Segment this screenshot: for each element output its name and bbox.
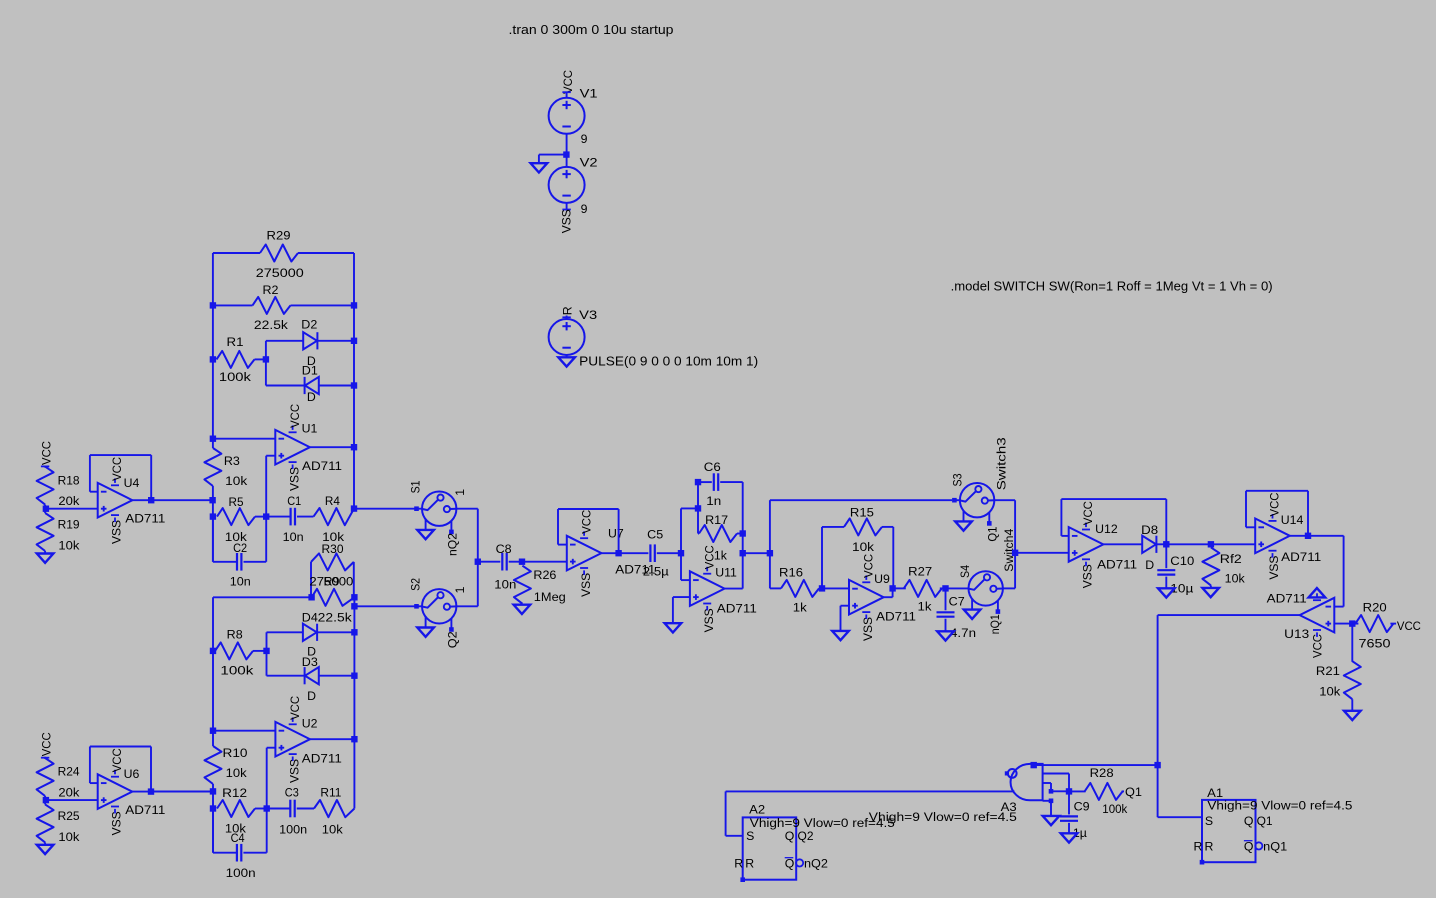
op-amp U9 bbox=[849, 580, 884, 615]
ground bbox=[1158, 588, 1175, 597]
svg-text:R8: R8 bbox=[227, 628, 243, 642]
op-amp U7 bbox=[567, 536, 602, 571]
wire right rail upper oscillator bbox=[353, 253, 355, 509]
ground bbox=[1202, 588, 1219, 597]
wire C8 to junction bbox=[509, 561, 522, 563]
flip-flop A1 bbox=[1202, 800, 1256, 862]
node junction U9 out R27 bbox=[889, 585, 895, 591]
gate A3 input stub 3 to ground bbox=[1043, 800, 1051, 802]
svg-text:AD711: AD711 bbox=[1097, 558, 1137, 572]
resistor R19 bbox=[44, 509, 46, 513]
wire U7 output to C5 bbox=[619, 552, 649, 554]
wire rail up to C6 R17 bbox=[680, 508, 682, 553]
svg-text:R12: R12 bbox=[222, 786, 247, 800]
svg-text:U1: U1 bbox=[302, 422, 318, 436]
resistor R4 bbox=[314, 508, 355, 525]
resistor R30 bbox=[311, 553, 354, 570]
node junction S1 S2 to C8 bbox=[475, 559, 481, 565]
wire branch up to D2 bbox=[265, 341, 267, 360]
node junction R9 right bbox=[351, 594, 357, 600]
ground bbox=[832, 631, 849, 640]
svg-text:1k: 1k bbox=[793, 601, 808, 615]
svg-text:nQ2: nQ2 bbox=[446, 533, 460, 556]
resistor R30 parallel loop bbox=[310, 562, 312, 597]
wire to S1 bbox=[354, 508, 415, 510]
svg-text:C1: C1 bbox=[287, 494, 301, 508]
svg-text:22.5k: 22.5k bbox=[318, 611, 353, 625]
svg-text:9: 9 bbox=[581, 202, 588, 216]
svg-text:Vhigh=9 Vlow=0 ref=4.5: Vhigh=9 Vlow=0 ref=4.5 bbox=[1207, 798, 1352, 812]
wire U14 feedback loop bbox=[1246, 526, 1255, 528]
svg-text:Q: Q bbox=[1244, 840, 1254, 854]
svg-text:1: 1 bbox=[453, 489, 467, 496]
node junction D8 C10 bbox=[1163, 541, 1169, 547]
svg-text:R2: R2 bbox=[263, 283, 279, 297]
wire U1 inverting input bbox=[213, 438, 275, 440]
wire S3 output bbox=[994, 499, 1015, 501]
wire gate output to A2 S input bbox=[726, 790, 1015, 792]
svg-text:VCC: VCC bbox=[1311, 634, 1325, 658]
power flag VSS at U13 bbox=[1309, 588, 1326, 597]
node junction D1 rail bbox=[351, 382, 357, 388]
ground bbox=[1043, 816, 1060, 825]
node junction D2 rail bbox=[351, 338, 357, 344]
wire R8 to branch bbox=[253, 650, 267, 652]
node junction Rf2 bbox=[1208, 541, 1214, 547]
svg-text:R: R bbox=[1205, 840, 1214, 854]
svg-text:R16: R16 bbox=[779, 566, 803, 580]
svg-text:C4: C4 bbox=[231, 831, 245, 845]
node junction R17 C6 right bbox=[740, 530, 746, 536]
ground bbox=[1061, 833, 1078, 842]
svg-text:VCC: VCC bbox=[1268, 492, 1282, 516]
wire U11 output bbox=[725, 588, 743, 590]
wire R5 to C1 bbox=[255, 516, 266, 518]
svg-text:AD711: AD711 bbox=[125, 512, 165, 526]
ground bbox=[1344, 711, 1361, 720]
wire U2 output bbox=[310, 738, 354, 740]
svg-text:VSS: VSS bbox=[287, 759, 301, 783]
svg-text:U4: U4 bbox=[124, 476, 140, 490]
svg-text:10n: 10n bbox=[230, 575, 251, 589]
wire R29 row bbox=[213, 252, 260, 254]
svg-text:R10: R10 bbox=[223, 746, 248, 760]
power net VSS label at V2 bbox=[566, 203, 568, 210]
svg-text:R18: R18 bbox=[58, 473, 80, 487]
svg-text:10k: 10k bbox=[1225, 571, 1246, 585]
resistor R28 bbox=[1069, 790, 1086, 792]
capacitor C8 bbox=[501, 553, 503, 571]
svg-text:7650: 7650 bbox=[1359, 636, 1391, 650]
capacitor C9 bbox=[1068, 791, 1070, 814]
node junction U1 out bbox=[351, 444, 357, 450]
svg-text:U12: U12 bbox=[1095, 522, 1118, 536]
svg-text:Q: Q bbox=[785, 829, 795, 843]
svg-text:R5: R5 bbox=[229, 495, 244, 509]
svg-text:AD711: AD711 bbox=[876, 610, 916, 624]
svg-text:9: 9 bbox=[581, 132, 588, 146]
wire U4 output to oscillator bbox=[151, 499, 212, 501]
svg-text:U6: U6 bbox=[124, 767, 140, 781]
svg-text:nQ1: nQ1 bbox=[988, 614, 1002, 634]
node junction R8 left bbox=[210, 648, 216, 654]
wire R12 to C3 bbox=[255, 808, 267, 810]
capacitor C5 bbox=[649, 544, 651, 562]
node junction R27 C7 S4 bbox=[942, 585, 948, 591]
svg-text:R4: R4 bbox=[325, 494, 340, 508]
node junction U1 inv bbox=[210, 436, 216, 442]
node junction U4 output joins rail bbox=[209, 497, 215, 503]
svg-text:D: D bbox=[307, 390, 316, 404]
wire U13 output bbox=[1158, 614, 1300, 616]
gate A3 output bubble bbox=[1008, 769, 1017, 778]
gate A3 input stub 1 bbox=[1043, 773, 1069, 775]
capacitor C7 bbox=[945, 588, 947, 610]
svg-text:1Meg: 1Meg bbox=[534, 590, 566, 604]
wire right rail lower oscillator bbox=[353, 597, 355, 808]
wire R1 to branch bbox=[255, 358, 266, 360]
svg-text:100k: 100k bbox=[220, 664, 254, 678]
op-amp U14 bbox=[1255, 519, 1290, 554]
svg-text:R27: R27 bbox=[908, 565, 932, 579]
node junction left R1 bbox=[210, 356, 216, 362]
resistor R12 bbox=[217, 800, 255, 817]
svg-text:D4: D4 bbox=[302, 611, 318, 625]
svg-text:D: D bbox=[307, 689, 316, 703]
wire U11 out to R16 branch bbox=[743, 552, 770, 554]
svg-text:10k: 10k bbox=[225, 474, 248, 488]
wire branch down to D1 bbox=[265, 359, 267, 385]
wire to ground flag bbox=[539, 154, 567, 156]
svg-text:nQ1: nQ1 bbox=[1263, 840, 1287, 854]
diode D3 bbox=[305, 667, 319, 684]
capacitor C6 loop bbox=[697, 482, 699, 508]
voltage source V3 bbox=[566, 316, 568, 320]
svg-text:10k: 10k bbox=[1319, 684, 1341, 698]
wire D3 to rail bbox=[319, 675, 355, 677]
svg-text:VSS: VSS bbox=[287, 467, 301, 491]
wire U6 feedback loop bbox=[132, 791, 151, 793]
svg-text:U11: U11 bbox=[715, 566, 737, 580]
node junction U11 out bbox=[740, 550, 746, 556]
gate A3 input stub 2 bbox=[1043, 782, 1051, 784]
node junction D3 rail bbox=[351, 673, 357, 679]
diode D1 bbox=[305, 377, 319, 394]
wire S2 output bbox=[456, 605, 477, 607]
capacitor C3 bbox=[289, 800, 291, 818]
resistor R29 bbox=[260, 245, 298, 262]
resistor R9 bbox=[312, 589, 355, 606]
node junction U14 out bbox=[1305, 533, 1311, 539]
svg-text:VCC: VCC bbox=[579, 510, 593, 534]
wire U4 feedback loop bbox=[132, 499, 151, 501]
node junction R20 R21 bbox=[1349, 620, 1355, 626]
switch S2 bbox=[414, 604, 419, 609]
node junction bottom right bbox=[1154, 762, 1160, 768]
svg-text:VSS: VSS bbox=[559, 209, 573, 233]
wire to U6 noninverting input bbox=[46, 799, 98, 801]
wire U2 inverting input bbox=[213, 730, 275, 732]
svg-text:C8: C8 bbox=[496, 542, 512, 556]
diode D2 bbox=[303, 332, 317, 349]
wire to C8 bbox=[478, 561, 501, 563]
svg-text:10k: 10k bbox=[58, 830, 80, 844]
svg-text:.model SWITCH SW(Ron=1 Roff =: .model SWITCH SW(Ron=1 Roff = 1Meg Vt = … bbox=[951, 279, 1273, 293]
svg-text:R: R bbox=[734, 857, 743, 871]
wire U1 noninverting input bbox=[265, 456, 267, 517]
resistor R18 bbox=[37, 467, 54, 505]
voltage source V2 bbox=[566, 155, 568, 167]
svg-text:U14: U14 bbox=[1281, 513, 1304, 527]
svg-text:C6: C6 bbox=[704, 460, 721, 474]
svg-text:R21: R21 bbox=[1316, 664, 1340, 678]
svg-text:VSS: VSS bbox=[702, 608, 716, 632]
svg-text:C10: C10 bbox=[1170, 554, 1194, 568]
svg-text:VSS: VSS bbox=[1267, 556, 1281, 580]
wire U9 output bbox=[884, 596, 893, 598]
svg-text:100n: 100n bbox=[279, 822, 307, 836]
svg-text:C9: C9 bbox=[1074, 800, 1090, 814]
node junction R12 row left bbox=[210, 805, 216, 811]
wire to U14 noninverting input bbox=[1211, 543, 1255, 545]
svg-text:R17: R17 bbox=[705, 513, 728, 527]
wire D4 to rail bbox=[317, 631, 354, 633]
svg-text:R1: R1 bbox=[227, 335, 244, 349]
svg-text:V1: V1 bbox=[580, 87, 598, 101]
resistor R21 bbox=[1351, 624, 1353, 662]
wire U11 noninverting to ground bbox=[673, 596, 690, 598]
node junction R9 left bbox=[308, 594, 314, 600]
wire left rail lower oscillator bbox=[212, 597, 214, 746]
ground bbox=[665, 623, 682, 632]
node junction D4 rail bbox=[351, 629, 357, 635]
ground bbox=[37, 845, 54, 854]
svg-text:275000: 275000 bbox=[256, 266, 304, 280]
node junction D1-D2 branch bbox=[263, 356, 269, 362]
node junction R5 right bbox=[263, 513, 269, 519]
svg-text:R28: R28 bbox=[1090, 766, 1114, 780]
svg-text:Q2: Q2 bbox=[798, 829, 814, 843]
node junction R24 R25 bbox=[43, 797, 49, 803]
svg-text:10k: 10k bbox=[852, 540, 875, 554]
node junction U2 inv bbox=[210, 728, 216, 734]
svg-text:Q1: Q1 bbox=[986, 526, 1000, 541]
resistor R24 bbox=[37, 758, 54, 796]
svg-text:R26: R26 bbox=[533, 568, 556, 582]
diode D4 bbox=[303, 624, 317, 641]
resistor R20 bbox=[1352, 623, 1358, 625]
svg-text:10k: 10k bbox=[322, 822, 344, 836]
svg-text:VCC: VCC bbox=[288, 404, 302, 428]
svg-text:VSS: VSS bbox=[861, 617, 875, 641]
wire branch down to D3 bbox=[266, 651, 268, 676]
wire U11 inverting input bbox=[680, 553, 682, 580]
svg-text:D3: D3 bbox=[302, 655, 318, 669]
wire U12 output to D8 bbox=[1103, 543, 1142, 545]
node junction U6 output joins rail bbox=[210, 788, 216, 794]
svg-text:.tran 0 300m 0 10u startup: .tran 0 300m 0 10u startup bbox=[509, 23, 674, 37]
svg-text:U13: U13 bbox=[1284, 627, 1309, 641]
switch S4 bbox=[946, 587, 969, 589]
op-amp U12 bbox=[1069, 527, 1104, 562]
svg-text:10k: 10k bbox=[58, 539, 80, 553]
wire S4 output bbox=[1003, 587, 1015, 589]
wire D8 to junction bbox=[1156, 543, 1166, 545]
ground bbox=[937, 631, 954, 640]
resistor R8 bbox=[215, 642, 253, 659]
svg-text:nQ2: nQ2 bbox=[804, 857, 828, 871]
switch S3 bbox=[952, 498, 957, 503]
node junction S2 tap bbox=[351, 603, 357, 609]
node junction R16 R15 U9 bbox=[819, 585, 825, 591]
svg-text:R25: R25 bbox=[58, 809, 80, 823]
svg-text:1: 1 bbox=[453, 586, 467, 593]
wire down to output row bbox=[742, 534, 744, 554]
wire to U12 noninverting input bbox=[1015, 552, 1069, 554]
node junction left R2 bbox=[210, 302, 216, 308]
svg-text:C7: C7 bbox=[949, 594, 965, 608]
svg-text:D2: D2 bbox=[301, 317, 317, 331]
wire V1 minus to junction bbox=[566, 134, 568, 155]
svg-text:S4: S4 bbox=[958, 565, 972, 578]
svg-text:AD711: AD711 bbox=[1267, 591, 1307, 605]
svg-text:PULSE(0 9 0 0 0 10m 10m 1): PULSE(0 9 0 0 0 10m 10m 1) bbox=[579, 355, 758, 369]
svg-text:C3: C3 bbox=[285, 785, 299, 799]
wire R2 row bbox=[213, 304, 253, 306]
wire U12 feedback loop bbox=[1061, 535, 1068, 537]
ground bbox=[531, 163, 548, 172]
node junction C6 R17 bbox=[695, 505, 701, 511]
svg-text:AD711: AD711 bbox=[717, 602, 757, 616]
svg-text:AD711: AD711 bbox=[1281, 550, 1321, 564]
svg-text:10k: 10k bbox=[226, 766, 248, 780]
ground bbox=[514, 605, 531, 614]
svg-text:D: D bbox=[1145, 558, 1154, 572]
svg-text:R: R bbox=[561, 306, 575, 315]
svg-text:AD711: AD711 bbox=[302, 459, 342, 473]
wire U14 output bbox=[1290, 535, 1308, 537]
resistor R27 bbox=[893, 587, 906, 589]
wire U7 feedback loop bbox=[601, 552, 618, 554]
wire C5 to U11 block bbox=[657, 552, 681, 554]
svg-text:VCC: VCC bbox=[110, 748, 124, 772]
op-amp U6 bbox=[98, 774, 133, 809]
node junction R12 right bbox=[264, 805, 270, 811]
wire U9 noninverting to ground bbox=[841, 605, 850, 607]
node junction C5 U11 bbox=[678, 550, 684, 556]
op-amp U13 bbox=[1300, 598, 1335, 633]
svg-text:U7: U7 bbox=[608, 527, 624, 541]
svg-text:U9: U9 bbox=[874, 572, 890, 586]
wire R9 row bbox=[213, 596, 312, 598]
ground bbox=[566, 355, 568, 357]
node junction R26 bbox=[519, 559, 525, 565]
node junction right R2 bbox=[351, 302, 357, 308]
op-amp U2 bbox=[275, 722, 310, 757]
svg-text:VSS: VSS bbox=[110, 520, 124, 544]
wire U6 output to oscillator bbox=[151, 791, 213, 793]
node junction U2 out bbox=[351, 736, 357, 742]
node junction R16 branch bbox=[767, 550, 773, 556]
svg-text:Q2: Q2 bbox=[446, 631, 460, 648]
svg-text:AD711: AD711 bbox=[125, 803, 165, 817]
wire D1 to rail bbox=[319, 385, 354, 387]
svg-text:Rf2: Rf2 bbox=[1220, 552, 1242, 566]
svg-text:VCC: VCC bbox=[39, 732, 53, 756]
wire junction to A1 S input bbox=[1157, 765, 1159, 817]
svg-text:1n: 1n bbox=[706, 494, 721, 508]
svg-text:R19: R19 bbox=[58, 518, 80, 532]
svg-text:VSS: VSS bbox=[579, 573, 593, 597]
svg-text:10n: 10n bbox=[283, 530, 304, 544]
svg-text:22.5k: 22.5k bbox=[254, 318, 289, 332]
svg-text:S: S bbox=[746, 829, 754, 843]
node junction S3 S4 to U12 bbox=[1012, 550, 1018, 556]
op-amp U11 bbox=[690, 571, 725, 606]
resistor R11 bbox=[314, 800, 354, 817]
capacitor C4 loop bbox=[212, 809, 214, 853]
wire C3 to R11 bbox=[297, 808, 314, 810]
nand gate A3 bbox=[1011, 764, 1043, 800]
wire branch up to D4 bbox=[266, 632, 268, 651]
svg-text:R3: R3 bbox=[224, 454, 240, 468]
switch S1 bbox=[414, 506, 419, 511]
svg-text:C2: C2 bbox=[233, 541, 247, 555]
node junction R5 row left bbox=[210, 513, 216, 519]
svg-text:R: R bbox=[745, 857, 754, 871]
svg-text:2.5µ: 2.5µ bbox=[643, 565, 669, 579]
resistor R16 bbox=[781, 580, 819, 597]
node junction R18 R19 bbox=[43, 506, 49, 512]
svg-text:100k: 100k bbox=[1102, 802, 1128, 816]
svg-text:R: R bbox=[1194, 840, 1203, 854]
wire U14 out to U13 bbox=[1308, 535, 1344, 537]
capacitor C10 bbox=[1165, 544, 1167, 568]
svg-text:VCC: VCC bbox=[39, 441, 53, 465]
svg-text:R20: R20 bbox=[1363, 601, 1387, 615]
resistor R1 bbox=[217, 351, 255, 368]
svg-text:S2: S2 bbox=[409, 578, 423, 591]
resistor Rf2 bbox=[1202, 547, 1219, 585]
ground bbox=[37, 554, 54, 563]
svg-text:R15: R15 bbox=[850, 506, 874, 520]
svg-text:Q1: Q1 bbox=[1125, 785, 1142, 799]
wire U1 output bbox=[310, 446, 354, 448]
node junction gate top bbox=[1031, 762, 1037, 768]
svg-text:S: S bbox=[1205, 814, 1213, 828]
svg-text:Vhigh=9 Vlow=0 ref=4.5: Vhigh=9 Vlow=0 ref=4.5 bbox=[750, 816, 895, 830]
svg-text:Q1: Q1 bbox=[1257, 814, 1273, 828]
svg-text:100n: 100n bbox=[226, 866, 256, 880]
svg-text:C5: C5 bbox=[647, 527, 663, 541]
resistor R10 bbox=[205, 746, 222, 784]
wire rail up to S3 bbox=[769, 500, 771, 553]
voltage source V1 bbox=[566, 93, 568, 98]
svg-text:A2: A2 bbox=[749, 803, 765, 817]
svg-text:R9: R9 bbox=[324, 575, 340, 589]
svg-text:Q: Q bbox=[785, 857, 795, 871]
resistor R3 bbox=[204, 448, 221, 486]
wire to Rf2 bbox=[1166, 543, 1211, 545]
wire to S2 bbox=[354, 605, 414, 607]
wire to U7 noninverting input bbox=[522, 561, 567, 563]
svg-text:R11: R11 bbox=[320, 785, 341, 799]
svg-text:U2: U2 bbox=[302, 717, 318, 731]
flip-flop A2 bbox=[743, 817, 797, 879]
resistor R2 bbox=[253, 297, 291, 314]
svg-text:VCC: VCC bbox=[110, 457, 124, 481]
resistor R17 bbox=[697, 508, 699, 533]
